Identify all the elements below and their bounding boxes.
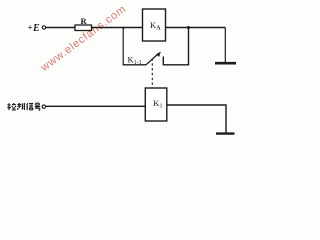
wire KA to ground branch <box>166 27 226 29</box>
junction node at switch branch <box>122 27 124 29</box>
ground 2 <box>216 132 235 134</box>
terminal E <box>42 26 45 29</box>
号 <box>35 103 40 110</box>
switch K1-1 left contact wire <box>123 64 146 66</box>
信 <box>27 103 33 110</box>
wire resistor to KA box <box>92 27 143 29</box>
mechanical linkage dashed line <box>151 59 153 88</box>
junction node right <box>187 26 190 29</box>
svg-text:+: + <box>28 23 33 33</box>
ground 1 <box>215 62 236 65</box>
svg-text:E: E <box>32 23 40 34</box>
switch blade with arrow <box>146 54 159 65</box>
relay coil K1 <box>145 88 167 121</box>
svg-text:R: R <box>81 16 88 26</box>
wire E to resistor <box>46 27 75 29</box>
wire junction down to switch <box>122 28 124 65</box>
控 <box>7 103 16 110</box>
wire K1 to ground 2 <box>167 105 226 133</box>
wire down to ground 1 <box>224 28 226 64</box>
terminal control signal <box>42 105 45 108</box>
label control signal (控制信号) <box>7 103 40 110</box>
resistor R <box>75 25 92 31</box>
制 <box>17 103 24 110</box>
wire control to K1 <box>46 105 146 107</box>
switch right fixed contact <box>163 28 188 65</box>
relay coil KA <box>143 9 166 41</box>
